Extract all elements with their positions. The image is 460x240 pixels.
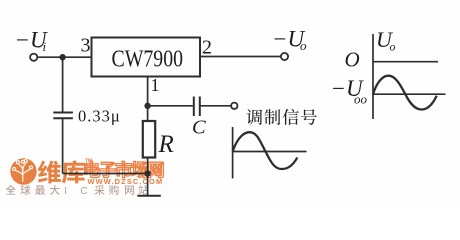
node junction input bbox=[59, 54, 65, 60]
wire C1 bottom bbox=[62, 118, 64, 173]
watermark logo disc bbox=[10, 158, 36, 184]
svg-text:o: o bbox=[390, 40, 396, 54]
graph O line bbox=[373, 61, 438, 63]
node junction pin1 bbox=[144, 103, 150, 109]
wire input horizontal bbox=[38, 56, 92, 58]
signal terminal bbox=[231, 103, 237, 109]
svg-text:i: i bbox=[43, 39, 47, 54]
regulator U1 CW7900 box bbox=[92, 38, 201, 77]
svg-text:0.33μ: 0.33μ bbox=[78, 106, 121, 125]
svg-text:WWW.DZSC.COM: WWW.DZSC.COM bbox=[88, 177, 164, 186]
modulation sine bbox=[233, 132, 298, 169]
svg-text:oo: oo bbox=[354, 91, 368, 106]
output terminal bbox=[281, 53, 288, 60]
svg-text:CW7900: CW7900 bbox=[112, 46, 184, 73]
svg-text:2: 2 bbox=[202, 37, 212, 59]
svg-text:C: C bbox=[192, 117, 206, 139]
node junction rail bbox=[144, 170, 150, 176]
wire C to terminal bbox=[200, 105, 231, 107]
svg-text:1: 1 bbox=[151, 75, 160, 95]
modulation waveform axes bbox=[232, 127, 234, 179]
svg-text:I: I bbox=[64, 186, 67, 197]
wire bottom rail bbox=[63, 173, 148, 175]
resistor R bbox=[143, 121, 155, 158]
svg-text:O: O bbox=[345, 47, 360, 71]
capacitor C bbox=[193, 97, 195, 117]
wire pin1 vertical bbox=[147, 77, 149, 122]
output graph axis vertical bbox=[372, 34, 374, 119]
watermark outlined 电子市场网 bbox=[85, 161, 164, 178]
svg-text:R: R bbox=[158, 131, 174, 158]
output sine bbox=[373, 76, 437, 110]
watermark gray slogan bbox=[6, 185, 149, 197]
input terminal bbox=[30, 54, 37, 61]
wire left vertical to C1 bbox=[62, 57, 64, 112]
svg-text:o: o bbox=[300, 38, 307, 53]
wire output horizontal bbox=[200, 56, 281, 58]
svg-text:3: 3 bbox=[81, 35, 91, 57]
ground bbox=[137, 195, 161, 197]
label 调制信号 bbox=[246, 109, 316, 125]
capacitor C1 0.33u bbox=[53, 112, 73, 114]
wire R bottom bbox=[147, 158, 149, 196]
watermark brand 维库 bbox=[38, 160, 85, 183]
graph -Uoo line bbox=[373, 93, 446, 95]
svg-text:C: C bbox=[80, 186, 87, 197]
wire junction to C bbox=[148, 105, 193, 107]
